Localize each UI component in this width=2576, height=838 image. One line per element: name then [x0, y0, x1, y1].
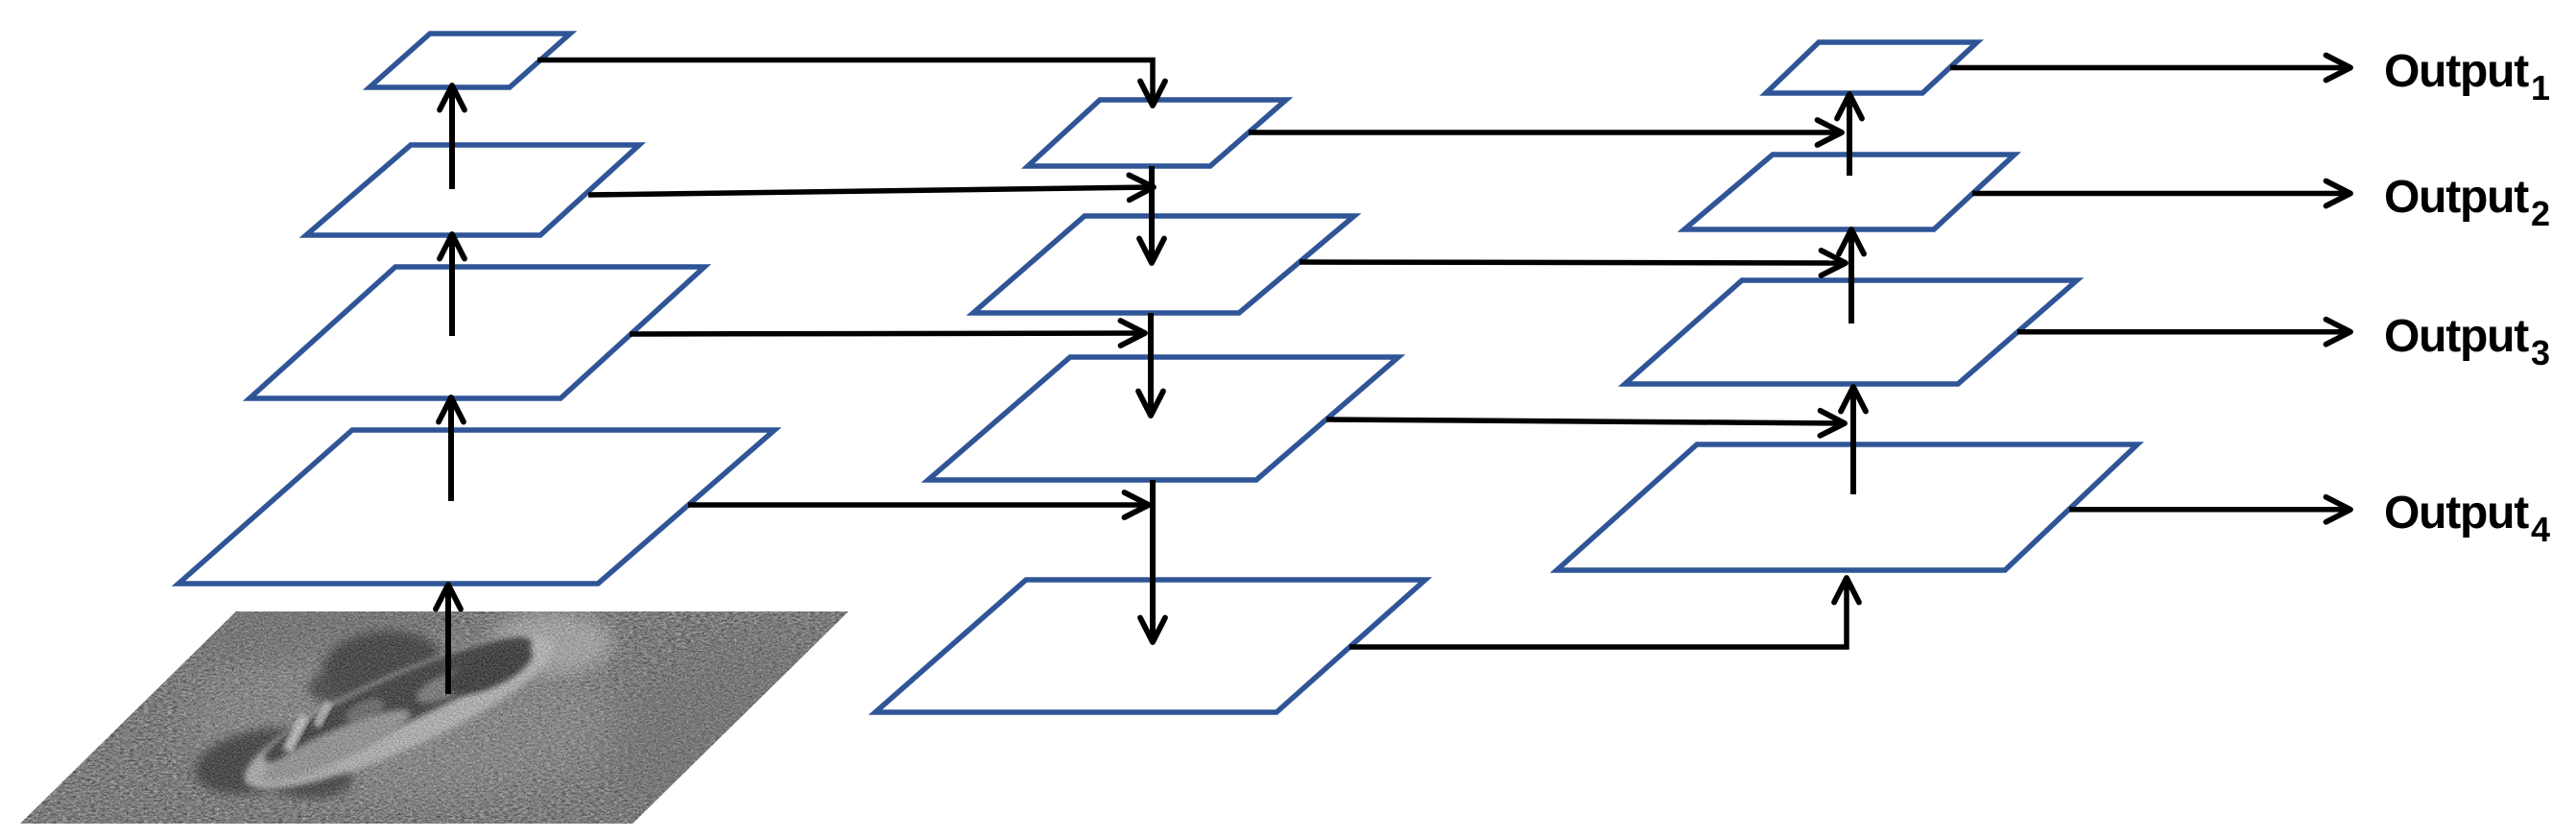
top-down feature map M2 — [973, 216, 1354, 313]
lateral arrow P2 to M1-M2 link — [588, 187, 1154, 195]
bottom-up feature map R2 — [1684, 155, 2015, 229]
label Output1 — [2384, 46, 2550, 108]
top-down feature map M1 — [1028, 100, 1286, 166]
backbone feature map P2 — [306, 145, 639, 235]
output arrow O1 — [1950, 65, 2350, 71]
bottom-up feature map R1 — [1766, 42, 1977, 93]
lateral arrow P3 to M2-M3 link — [630, 333, 1145, 334]
top-down feature map M4 — [875, 580, 1425, 712]
lateral arrow M2 to R2-R3 link — [1300, 262, 1846, 263]
up arrow R3 to R2 — [1849, 229, 1854, 323]
up arrow P2 to P1 — [449, 85, 455, 189]
down arrow M1 to M2 — [1149, 166, 1155, 263]
up arrow P4 to P3 — [448, 397, 454, 501]
svg-text:2: 2 — [2531, 194, 2550, 233]
output arrow O2 — [1972, 191, 2350, 197]
lateral arrow P4 to M3-M4 link — [688, 502, 1149, 508]
backbone feature map P3 — [250, 267, 704, 398]
svg-text:4: 4 — [2531, 510, 2550, 549]
elbow connector M4 to R4 — [1349, 578, 1847, 647]
output arrow O3 — [2017, 329, 2350, 335]
label Output4 — [2384, 488, 2550, 549]
lateral arrow M1 to R1-R2 link — [1249, 130, 1842, 135]
lateral arrow M3 to R3-R4 link — [1326, 419, 1845, 423]
up arrow P3 to P2 — [449, 234, 455, 336]
output arrow O4 — [2069, 507, 2350, 513]
svg-text:Output: Output — [2384, 311, 2529, 362]
backbone feature map P4 — [179, 430, 775, 584]
svg-text:Output: Output — [2384, 488, 2529, 539]
svg-text:Output: Output — [2384, 46, 2529, 97]
SAR input image — [0, 587, 921, 838]
elbow connector P1 to M1 — [537, 60, 1153, 107]
label Output3 — [2384, 311, 2550, 372]
bottom-up feature map R3 — [1625, 280, 2077, 384]
down arrow M3 to M4 — [1150, 480, 1156, 642]
svg-text:1: 1 — [2531, 68, 2550, 108]
svg-text:Output: Output — [2384, 172, 2529, 223]
svg-text:3: 3 — [2531, 333, 2550, 372]
bottom-up feature map R4 — [1557, 444, 2137, 570]
backbone feature map P1 — [370, 34, 570, 87]
up arrow R4 to R3 — [1850, 387, 1856, 494]
top-down feature map M3 — [928, 357, 1398, 480]
label Output2 — [2384, 172, 2550, 233]
up arrow image to P4 — [445, 585, 451, 694]
up arrow R2 to R1 — [1847, 94, 1852, 176]
down arrow M2 to M3 — [1148, 313, 1154, 416]
